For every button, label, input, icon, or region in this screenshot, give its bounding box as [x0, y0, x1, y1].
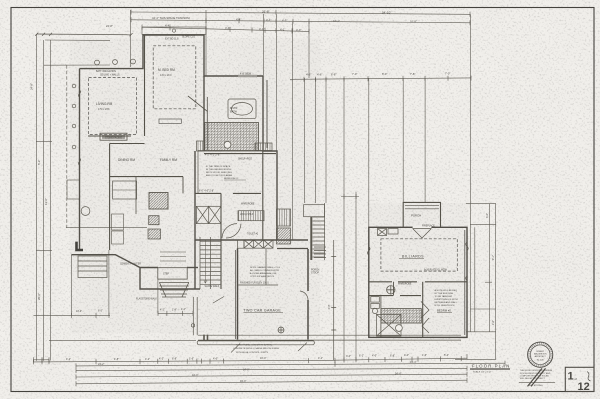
svg-text:IN THIS BEDROOM WILL: IN THIS BEDROOM WILL — [206, 169, 232, 171]
svg-text:54'-4": 54'-4" — [395, 372, 401, 375]
svg-text:FLOOR PLAN: FLOOR PLAN — [472, 363, 511, 368]
toilet/landing upper mid — [197, 151, 199, 194]
svg-text:13'-0": 13'-0" — [44, 198, 48, 205]
svg-text:PORCH: PORCH — [311, 270, 320, 272]
svg-text:24'-8": 24'-8" — [30, 83, 34, 90]
svg-text:STEP: STEP — [163, 274, 169, 276]
svg-text:4'-2" 4'-2" 2'-8": 4'-2" 4'-2" 2'-8" — [205, 155, 220, 157]
svg-text:5'-4": 5'-4" — [444, 354, 449, 357]
svg-text:6'-8": 6'-8" — [331, 72, 336, 76]
svg-text:SCALE 1/4" = 1'-0": SCALE 1/4" = 1'-0" — [473, 370, 492, 373]
interior walls — [88, 35, 276, 289]
billiards dashed ceiling — [381, 239, 457, 271]
wall y193.4 — [195, 192, 261, 194]
porch & steps front of house — [158, 252, 189, 297]
svg-text:6'-0" 4'-0" 2'-8": 6'-0" 4'-0" 2'-8" — [199, 191, 214, 193]
svg-text:FLAGSTONE WALK: FLAGSTONE WALK — [136, 298, 157, 301]
svg-text:TWO CAR GARAGE: TWO CAR GARAGE — [244, 308, 282, 312]
svg-text:B.T.B. SHEETROCK: B.T.B. SHEETROCK — [435, 305, 456, 307]
svg-text:4'-5": 4'-5" — [282, 19, 287, 23]
svg-text:NOTE: GARAGE WALL + CLG: NOTE: GARAGE WALL + CLG — [250, 266, 280, 269]
svg-text:SLOPE WALK: SLOPE WALK — [205, 285, 220, 288]
left short dim rung y34 — [37, 33, 131, 36]
svg-text:EXT BD CLG: EXT BD CLG — [165, 39, 179, 41]
svg-text:FAMILY RM: FAMILY RM — [160, 158, 177, 162]
svg-text:17'0 x 23'6: 17'0 x 23'6 — [98, 108, 110, 111]
garage door opening — [197, 341, 314, 345]
svg-text:3'-0": 3'-0" — [486, 213, 489, 218]
wall table box — [159, 119, 181, 123]
svg-text:STONE FACING: STONE FACING — [105, 137, 122, 140]
svg-text:3'-0": 3'-0" — [328, 305, 331, 310]
svg-text:ALL WALLS COMMON WITH: ALL WALLS COMMON WITH — [250, 269, 279, 272]
bath2 small boxes right wall — [277, 209, 291, 244]
svg-text:6'-8": 6'-8" — [172, 358, 177, 361]
main house outer walls — [71, 35, 308, 289]
svg-text:IS SOLE RESPONSIBILITY AND: IS SOLE RESPONSIBILITY AND — [520, 372, 551, 375]
svg-text:26'-8": 26'-8" — [262, 10, 270, 14]
svg-text:BEDRM #2: BEDRM #2 — [437, 309, 451, 313]
sidewalk S.D. walk — [198, 335, 461, 341]
svg-text:4'-0": 4'-0" — [404, 354, 409, 357]
window circles top wall — [72, 59, 284, 333]
extension verticals descending from y78 — [292, 78, 294, 240]
svg-text:4'-2": 4'-2" — [66, 358, 71, 361]
svg-text:6'-8": 6'-8" — [390, 354, 395, 357]
kitchen counters boxes — [113, 181, 137, 199]
svg-text:BETWEEN AND WALL: BETWEEN AND WALL — [435, 301, 458, 304]
svg-text:LIN 16 SHLF: LIN 16 SHLF — [240, 214, 254, 216]
small annotation texts — [96, 37, 448, 301]
circle-plus symbol — [387, 286, 395, 294]
svg-text:7'-0": 7'-0" — [352, 72, 357, 76]
svg-text:4'-1": 4'-1" — [318, 357, 323, 360]
svg-text:24'-2": 24'-2" — [98, 363, 104, 366]
svg-text:12: 12 — [578, 381, 590, 393]
wing door swing X — [413, 229, 432, 239]
top dimension line C — [142, 27, 309, 31]
svg-text:WARDROBE: WARDROBE — [398, 283, 412, 286]
title block — [565, 367, 594, 393]
bottom dimension lines — [34, 354, 506, 386]
svg-text:4'-2": 4'-2" — [160, 308, 165, 311]
svg-text:A NOTE WILL BE REQ: A NOTE WILL BE REQ — [435, 289, 458, 292]
svg-text:No 1146: No 1146 — [537, 360, 544, 362]
dining/kitchen area — [109, 144, 111, 251]
door arcs hall — [222, 224, 237, 238]
svg-text:BATH: BATH — [230, 110, 237, 114]
stoop right of garage — [314, 240, 336, 361]
wing middle wall — [369, 282, 467, 338]
svg-text:4'-4": 4'-4" — [165, 24, 170, 28]
engineer stamp — [528, 342, 553, 367]
garage — [235, 249, 308, 340]
svg-text:4'-0": 4'-0" — [213, 358, 218, 361]
FLOOR PLAN title — [470, 363, 511, 373]
svg-text:STRUCTURAL CONCRETE APRON: STRUCTURAL CONCRETE APRON — [236, 344, 272, 347]
left lower rung y315 with ticks — [34, 314, 111, 316]
thick corner house SW — [77, 242, 84, 250]
right wing (guest house) outer walls — [369, 227, 467, 337]
svg-text:16'-0": 16'-0" — [260, 357, 266, 360]
svg-text:4'-8" WDW: 4'-8" WDW — [240, 74, 252, 76]
svg-text:AND CLOSET ROD AREA: AND CLOSET ROD AREA — [206, 174, 232, 177]
svg-text:1'-6": 1'-6" — [189, 358, 194, 361]
planter — [78, 256, 107, 278]
svg-text:4'-6": 4'-6" — [306, 73, 311, 77]
svg-text:4'-1": 4'-1" — [266, 18, 271, 22]
living/bedroom wall — [144, 35, 146, 136]
svg-text:ARCHITECT: ARCHITECT — [535, 355, 547, 358]
svg-text:BE OF WOOD SHELVING: BE OF WOOD SHELVING — [206, 172, 232, 174]
living room ceiling dashed — [89, 78, 137, 135]
left rotated labels — [30, 83, 496, 325]
svg-text:TOILET #2: TOILET #2 — [247, 234, 259, 236]
top extension verticals — [130, 10, 132, 67]
closets with X — [196, 206, 241, 238]
svg-text:34'-0": 34'-0" — [243, 368, 249, 371]
svg-text:6'-1": 6'-1" — [359, 355, 364, 358]
wing bath fixtures — [371, 297, 422, 336]
wing corner cabinet X box — [378, 229, 399, 236]
svg-text:CEILING + WALLS: CEILING + WALLS — [100, 74, 120, 77]
svg-text:SLOPE CLG: SLOPE CLG — [182, 37, 195, 39]
svg-text:4'-2": 4'-2" — [181, 308, 186, 311]
svg-text:M. BED RM: M. BED RM — [158, 68, 175, 72]
svg-text:19'-4": 19'-4" — [410, 361, 416, 364]
svg-text:MSTR: MSTR — [230, 106, 237, 110]
hall wall y151 double — [198, 150, 263, 152]
svg-text:BEDROOM #1: BEDROOM #1 — [224, 178, 239, 180]
svg-text:10'-2": 10'-2" — [76, 310, 82, 313]
svg-text:EVERYTHING IS WITH: EVERYTHING IS WITH — [435, 299, 458, 301]
svg-text:CONCRETE DRIVE COARSE BROOM F: CONCRETE DRIVE COARSE BROOM FINISH — [233, 347, 279, 350]
right side dimension verticals — [455, 204, 496, 360]
room labels — [96, 68, 451, 313]
svg-text:7'-8": 7'-8" — [410, 72, 415, 76]
apron note — [233, 344, 279, 354]
bedroom diagonal — [188, 96, 208, 112]
svg-text:TO BE TAKEN AT: TO BE TAKEN AT — [435, 295, 453, 298]
wing door V marks — [421, 301, 429, 333]
fireplace wall — [88, 135, 131, 137]
svg-text:6'-5": 6'-5" — [98, 310, 103, 313]
svg-text:4'-4": 4'-4" — [225, 26, 230, 30]
svg-text:STOOP: STOOP — [311, 273, 319, 275]
svg-text:16'-9": 16'-9" — [410, 20, 417, 24]
note block garage — [250, 266, 280, 278]
svg-text:A LIVING AREA SHALL BE: A LIVING AREA SHALL BE — [250, 272, 277, 275]
note block wing — [435, 289, 458, 307]
svg-text:24'-8": 24'-8" — [106, 24, 113, 28]
svg-text:BY THE BUILDING: BY THE BUILDING — [435, 293, 454, 295]
svg-text:WARDROBE: WARDROBE — [241, 203, 255, 206]
bottom dim labels — [66, 354, 449, 383]
svg-text:COVD 5/8 SHEETROCK: COVD 5/8 SHEETROCK — [250, 276, 275, 278]
svg-text:44'-0": 44'-0" — [192, 374, 198, 377]
kitchen cabinets X row — [238, 240, 274, 248]
svg-text:FINISHED FLR ELEV 100.0: FINISHED FLR ELEV 100.0 — [240, 283, 269, 285]
note block bedroom1 — [206, 165, 239, 180]
svg-text:26'-0": 26'-0" — [37, 293, 41, 300]
svg-text:3'-0": 3'-0" — [346, 355, 351, 358]
svg-text:4'-2": 4'-2" — [145, 358, 150, 361]
transom detail box — [142, 27, 206, 34]
svg-text:4'-4": 4'-4" — [236, 18, 241, 22]
svg-text:1'-6": 1'-6" — [422, 354, 427, 357]
svg-text:1'-8": 1'-8" — [172, 308, 177, 311]
svg-text:2'-8": 2'-8" — [492, 320, 495, 325]
svg-text:SHELF+ROD: SHELF+ROD — [238, 159, 252, 161]
porch of wing — [403, 202, 440, 227]
svg-text:4'-0": 4'-0" — [296, 28, 301, 32]
walk vertical to porch — [191, 297, 197, 335]
master bath — [197, 99, 273, 221]
signature slashes — [528, 368, 546, 386]
fireplace dark box — [100, 133, 127, 140]
svg-text:DINING RM: DINING RM — [118, 158, 135, 162]
svg-text:6x10 PLATE GL WDW: 6x10 PLATE GL WDW — [424, 268, 448, 271]
svg-text:16'-1": 16'-1" — [333, 19, 340, 23]
svg-text:94'-0": 94'-0" — [240, 380, 246, 383]
svg-text:MACGREGOR: MACGREGOR — [534, 353, 547, 356]
svg-text:4'-6": 4'-6" — [317, 73, 322, 77]
svg-text:9'-1": 9'-1" — [492, 255, 495, 260]
upper tick dimension line y78 — [290, 76, 471, 361]
svg-text:IF THE TRIM OF SPACE: IF THE TRIM OF SPACE — [206, 165, 231, 168]
svg-text:CEMENT PLANTER: CEMENT PLANTER — [120, 263, 141, 266]
dimension texts top — [106, 10, 450, 77]
svg-text:BATT INSULATION: BATT INSULATION — [96, 70, 116, 73]
svg-text:4'-0": 4'-0" — [372, 355, 377, 358]
svg-text:4'-1": 4'-1" — [280, 28, 285, 32]
svg-text:5'-2": 5'-2" — [37, 160, 41, 165]
bedroom ceiling dashed — [153, 46, 196, 109]
svg-text:7'-0": 7'-0" — [445, 72, 450, 76]
svg-text:14'0 x 21'0: 14'0 x 21'0 — [160, 74, 172, 77]
svg-text:4'-1": 4'-1" — [259, 27, 264, 31]
stairs walls — [220, 193, 222, 289]
svg-text:FIREPLACE: FIREPLACE — [422, 225, 435, 228]
svg-text:LIVING RM: LIVING RM — [96, 102, 113, 106]
svg-text:6'-0": 6'-0" — [382, 72, 387, 76]
svg-text:1'-8": 1'-8" — [114, 358, 119, 361]
shower hatched box kitchen area — [149, 193, 168, 210]
stairs upper right — [304, 203, 325, 260]
bedroom1 right wall — [262, 151, 264, 240]
svg-text:BILLIARDS: BILLIARDS — [402, 255, 424, 259]
stairs main (center, going down) — [200, 237, 221, 289]
top dimension line B — [131, 20, 470, 23]
left dimension verticals — [34, 34, 225, 362]
svg-text:4'-2": 4'-2" — [159, 358, 164, 361]
svg-text:PORCH: PORCH — [411, 214, 421, 218]
svg-text:WITH EDGE CONTROL JOINTS: WITH EDGE CONTROL JOINTS — [236, 352, 269, 354]
signature note block — [520, 370, 553, 380]
svg-text:44'-4" THIS SPACE TRANSOM: 44'-4" THIS SPACE TRANSOM — [152, 16, 190, 20]
svg-text:1: 1 — [568, 371, 574, 383]
top dimension line A — [131, 12, 470, 14]
window marks wing — [368, 242, 469, 280]
svg-text:54'-10": 54'-10" — [382, 10, 391, 14]
